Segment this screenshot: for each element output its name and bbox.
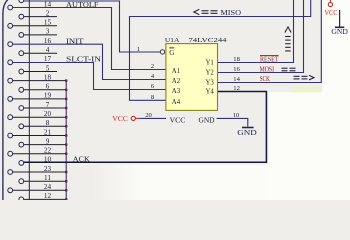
- svg-text:4: 4: [46, 46, 50, 54]
- wire AUTOLF pin14 to U1A A1: [13, 8, 166, 70]
- svg-text:ACK: ACK: [73, 155, 91, 163]
- svg-text:7: 7: [46, 101, 50, 109]
- svg-text:MISO: MISO: [221, 9, 242, 17]
- junction dot pin 20: [65, 116, 67, 118]
- connector pin 6: [19, 87, 24, 92]
- svg-text:22: 22: [44, 147, 52, 155]
- svg-text:16: 16: [233, 66, 240, 73]
- wire SCK from U1A Y3 pin 14 up: [218, 0, 322, 83]
- connector pin 19: [8, 97, 13, 102]
- junction dot pin 11: [65, 180, 67, 182]
- svg-text:12: 12: [44, 192, 52, 200]
- svg-text:G: G: [169, 49, 174, 57]
- wire pin 10 to ground: [217, 118, 248, 126]
- wire pin1 STROBE to U1A pin1 (G): [24, 1, 161, 52]
- svg-text:SCK: SCK: [260, 75, 270, 83]
- connector pin 18: [8, 78, 13, 83]
- junction dot pin 12: [65, 198, 67, 200]
- arrow ==&gt; on SCK: [294, 75, 315, 80]
- svg-text:8: 8: [46, 119, 50, 127]
- svg-text:GND: GND: [331, 28, 348, 36]
- svg-text:MOSI: MOSI: [260, 65, 275, 73]
- wire ACK pin10 to U1A Y4 pin 12: [24, 92, 267, 163]
- svg-text:14: 14: [233, 76, 240, 83]
- connector pin 4: [19, 51, 24, 56]
- wire SLCT-IN pin17 to U1A A3: [13, 63, 166, 90]
- svg-text:12: 12: [233, 85, 240, 92]
- junction dot pin 19: [65, 98, 67, 100]
- svg-text:17: 17: [44, 55, 52, 63]
- svg-text:15: 15: [44, 19, 52, 27]
- connector pin 16: [8, 42, 13, 47]
- svg-text:19: 19: [44, 92, 52, 100]
- connector pin 10: [19, 161, 24, 166]
- svg-text:3: 3: [46, 28, 50, 36]
- svg-text:20: 20: [145, 112, 152, 119]
- svg-text:GND: GND: [199, 116, 215, 124]
- svg-text:24: 24: [44, 183, 52, 191]
- wire MISO from top right down to U1A A4 pin 8: [130, 0, 311, 100]
- connector pin 21: [8, 133, 13, 138]
- connector pin 2: [19, 14, 24, 19]
- connector pin 8: [19, 124, 24, 129]
- svg-text:23: 23: [44, 165, 52, 173]
- connector pin 17: [8, 60, 13, 65]
- svg-text:A2: A2: [172, 78, 181, 85]
- ground bus wire (ties pins 18-25): [65, 81, 67, 200]
- connector pin 12: [19, 197, 24, 202]
- junction dot pin 9: [65, 143, 67, 145]
- wire RESET from U1A Y1 pin 18 up: [218, 0, 294, 63]
- connector pin 14: [8, 5, 13, 10]
- svg-text:AUTOLF: AUTOLF: [66, 1, 99, 9]
- junction dot pin 8: [65, 125, 67, 127]
- inversion bubble on pin 1: [160, 50, 164, 54]
- svg-text:SLCT-IN: SLCT-IN: [66, 56, 102, 64]
- svg-text:1: 1: [137, 46, 140, 53]
- svg-text:VCC: VCC: [325, 9, 338, 17]
- junction dot pin 24: [65, 189, 67, 191]
- wire MOSI from U1A Y2 pin 16 up: [218, 0, 304, 73]
- up arrow annotation near RESET: [285, 27, 291, 51]
- svg-text:18: 18: [233, 56, 240, 63]
- junction dot pin 22: [65, 153, 67, 155]
- junction dot pin 6: [65, 89, 67, 91]
- svg-text:6: 6: [46, 83, 50, 91]
- svg-text:RESET: RESET: [260, 56, 279, 64]
- highlight streak on wire near SCK: [292, 86, 321, 93]
- svg-text:Y3: Y3: [205, 79, 214, 86]
- svg-text:20: 20: [44, 110, 52, 118]
- arrow == on MOSI: [282, 68, 296, 71]
- junction dot pin 21: [65, 134, 67, 136]
- connector pin 20: [8, 115, 13, 120]
- svg-text:Y4: Y4: [205, 88, 214, 95]
- wire VCC to pin 20: [140, 117, 166, 119]
- arrow &lt;== on MISO wire: [194, 9, 218, 14]
- connector pin 22: [8, 151, 13, 156]
- connector pin 1 (partial at top edge): [19, 0, 24, 3]
- connector pin 7: [19, 106, 24, 111]
- svg-text:9: 9: [46, 137, 50, 145]
- junction dot pin 7: [65, 107, 67, 109]
- svg-text:Y1: Y1: [205, 59, 213, 66]
- svg-text:5: 5: [46, 64, 50, 72]
- svg-text:21: 21: [44, 128, 52, 136]
- connector pin 23: [8, 170, 13, 175]
- connector J1 body outline (DB25 left shell): [3, 0, 8, 200]
- junction dot pin 18: [65, 79, 67, 81]
- svg-text:U1A: U1A: [165, 37, 180, 44]
- ground symbol (bottom): [242, 127, 254, 129]
- svg-text:A3: A3: [172, 88, 181, 95]
- svg-text:11: 11: [44, 174, 51, 182]
- op IC U1A 74LVC244 body: [166, 44, 218, 111]
- connector right edge: [28, 0, 30, 200]
- connector pin 11: [19, 179, 24, 184]
- workspace white area bottom-right: [269, 92, 350, 200]
- svg-text:GND: GND: [237, 129, 256, 137]
- svg-text:VCC: VCC: [112, 115, 128, 123]
- svg-text:Y2: Y2: [205, 69, 214, 76]
- VCC power port (top right): [329, 0, 331, 2]
- connector pin 3: [19, 33, 24, 38]
- svg-text:18: 18: [44, 73, 52, 81]
- connector pin 9: [19, 142, 24, 147]
- junction dot pin 23: [65, 171, 67, 173]
- wire INIT pin16 to U1A A2: [13, 44, 166, 79]
- svg-text:10: 10: [233, 112, 240, 119]
- svg-text:INIT: INIT: [66, 37, 84, 45]
- connector pin 24: [8, 188, 13, 193]
- connector pin 15: [8, 23, 13, 28]
- GND power port (top right): [339, 10, 341, 27]
- svg-text:2: 2: [46, 9, 50, 17]
- svg-text:A1: A1: [172, 68, 180, 75]
- connector pin 5: [19, 69, 24, 74]
- svg-text:VCC: VCC: [170, 116, 186, 124]
- svg-text:A4: A4: [172, 99, 181, 106]
- svg-text:74LVC244: 74LVC244: [189, 37, 228, 44]
- svg-text:2: 2: [151, 63, 154, 70]
